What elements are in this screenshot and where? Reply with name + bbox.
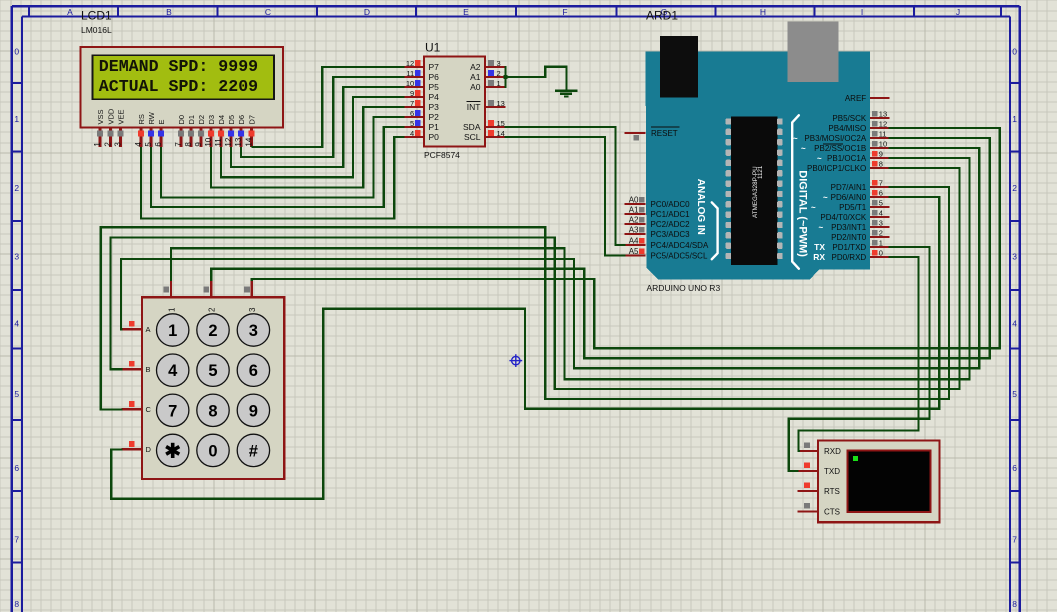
svg-text:RESET: RESET bbox=[651, 129, 678, 138]
svg-text:PD4/T0/XCK: PD4/T0/XCK bbox=[820, 213, 866, 222]
svg-text:D6: D6 bbox=[237, 115, 246, 125]
wire LCD D4 pin11 to U1 P4 bbox=[221, 97, 405, 177]
svg-text:LM016L: LM016L bbox=[81, 25, 112, 35]
svg-text:VEE: VEE bbox=[117, 109, 126, 124]
svg-text:B: B bbox=[146, 365, 151, 374]
keypad row pin state squares bbox=[129, 321, 135, 327]
svg-text:VDD: VDD bbox=[107, 108, 116, 124]
svg-text:3: 3 bbox=[248, 307, 257, 312]
U1 left pin state squares bbox=[415, 60, 421, 66]
wire keypad row C to ARD1 pin7 bbox=[101, 187, 949, 409]
virtual terminal pin stubs bbox=[798, 450, 819, 452]
ARD1 RESET state square bbox=[634, 135, 639, 140]
svg-text:J: J bbox=[956, 7, 960, 17]
svg-text:D1: D1 bbox=[187, 115, 196, 125]
svg-text:RXD: RXD bbox=[824, 447, 841, 456]
svg-text:7: 7 bbox=[174, 142, 183, 147]
U1 right pin state squares bbox=[488, 60, 494, 66]
svg-text:5: 5 bbox=[1012, 389, 1017, 399]
wire U1 A2 A1 A0 tie bbox=[504, 66, 506, 88]
svg-text:6: 6 bbox=[154, 142, 163, 147]
svg-text:14: 14 bbox=[244, 137, 253, 146]
wire U1 A1 to ground bbox=[505, 67, 567, 91]
svg-text:0: 0 bbox=[208, 442, 217, 460]
svg-text:U1: U1 bbox=[425, 41, 441, 55]
svg-text:P2: P2 bbox=[429, 112, 440, 122]
wire LCD D5 pin12 to U1 P5 bbox=[231, 87, 405, 167]
svg-text:5: 5 bbox=[14, 389, 19, 399]
svg-text:RTS: RTS bbox=[824, 487, 840, 496]
virtual terminal pin state squares bbox=[804, 443, 810, 449]
microcontroller ATMEGA328P DIP package bbox=[731, 116, 777, 265]
svg-text:4: 4 bbox=[14, 319, 19, 329]
svg-text:13: 13 bbox=[879, 110, 887, 119]
sheet ruler frame bbox=[12, 5, 1020, 7]
svg-text:I: I bbox=[861, 7, 863, 17]
svg-text:PB2/SS/OC1B: PB2/SS/OC1B bbox=[814, 144, 866, 153]
svg-text:3: 3 bbox=[113, 142, 122, 147]
ARD1 analog pin stubs bbox=[625, 203, 646, 205]
svg-text:ARDUINO UNO R3: ARDUINO UNO R3 bbox=[647, 283, 721, 293]
svg-text:PD6/AIN0: PD6/AIN0 bbox=[831, 193, 867, 202]
svg-text:10: 10 bbox=[879, 140, 887, 149]
svg-text:2: 2 bbox=[208, 307, 217, 312]
svg-text:P3: P3 bbox=[429, 102, 440, 112]
svg-text:A0: A0 bbox=[470, 82, 481, 92]
svg-text:12: 12 bbox=[406, 59, 414, 68]
svg-text:P6: P6 bbox=[429, 72, 440, 82]
svg-text:~: ~ bbox=[823, 193, 828, 202]
svg-text:PC3/ADC3: PC3/ADC3 bbox=[651, 230, 691, 239]
svg-text:TXD: TXD bbox=[824, 467, 840, 476]
svg-text:~: ~ bbox=[817, 154, 822, 163]
LCD1 pin state squares bbox=[97, 131, 103, 137]
wire ARD1 PD1/TXD to terminal TXD bbox=[789, 247, 930, 471]
svg-text:PB0/ICP1/CLKO: PB0/ICP1/CLKO bbox=[807, 164, 866, 173]
svg-text:2: 2 bbox=[208, 322, 217, 340]
svg-text:8: 8 bbox=[184, 142, 193, 147]
svg-text:10: 10 bbox=[204, 137, 213, 146]
svg-text:PB4/MISO: PB4/MISO bbox=[828, 124, 866, 133]
wire U1 SCL pin14 to ARD1 A5 bbox=[505, 137, 626, 256]
svg-text:1: 1 bbox=[167, 307, 176, 312]
svg-text:#: # bbox=[249, 442, 258, 460]
svg-text:9: 9 bbox=[410, 89, 414, 98]
svg-text:D2: D2 bbox=[197, 115, 206, 125]
svg-text:C: C bbox=[265, 7, 271, 17]
LCD1 pin stubs 1-14 bbox=[99, 128, 102, 148]
svg-text:5: 5 bbox=[208, 362, 217, 380]
svg-text:2: 2 bbox=[103, 142, 112, 147]
svg-text:5: 5 bbox=[879, 199, 883, 208]
svg-text:ARD1: ARD1 bbox=[646, 9, 678, 23]
svg-text:DIGITAL (~PWM): DIGITAL (~PWM) bbox=[797, 170, 809, 257]
svg-text:C: C bbox=[146, 405, 152, 414]
svg-text:E: E bbox=[463, 7, 469, 17]
svg-text:PB5/SCK: PB5/SCK bbox=[832, 114, 866, 123]
svg-text:D4: D4 bbox=[217, 115, 226, 125]
svg-text:3: 3 bbox=[1012, 252, 1017, 262]
svg-text:2: 2 bbox=[1012, 183, 1017, 193]
svg-text:7: 7 bbox=[879, 179, 883, 188]
svg-text:7: 7 bbox=[1012, 535, 1017, 545]
svg-text:PD7/AIN1: PD7/AIN1 bbox=[831, 183, 867, 192]
wire keypad col3 to ARD1 pin12 bbox=[252, 128, 1000, 348]
svg-text:7: 7 bbox=[410, 99, 414, 108]
wire ARD1 PD0/RXD to terminal RXD bbox=[799, 257, 919, 451]
IO expander U1 PCF8574 body bbox=[424, 57, 485, 147]
svg-text:SDA: SDA bbox=[463, 122, 481, 132]
svg-text:P5: P5 bbox=[429, 82, 440, 92]
svg-text:0: 0 bbox=[14, 47, 19, 57]
svg-text:3: 3 bbox=[497, 59, 501, 68]
svg-text:6: 6 bbox=[14, 463, 19, 473]
svg-text:PC0/ADC0: PC0/ADC0 bbox=[651, 200, 691, 209]
svg-text:11: 11 bbox=[214, 138, 223, 147]
svg-text:PD5/T1: PD5/T1 bbox=[839, 203, 867, 212]
svg-text:D0: D0 bbox=[177, 115, 186, 125]
svg-text:1: 1 bbox=[879, 239, 883, 248]
keypad body bbox=[142, 297, 284, 479]
wire LCD D6 pin13 to U1 P6 bbox=[241, 77, 405, 157]
svg-text:11: 11 bbox=[879, 130, 887, 139]
virtual terminal cursor bbox=[853, 456, 858, 461]
svg-text:D: D bbox=[146, 445, 152, 454]
virtual terminal body bbox=[818, 441, 940, 523]
svg-text:7: 7 bbox=[168, 402, 177, 420]
svg-text:14: 14 bbox=[497, 129, 505, 138]
svg-text:~: ~ bbox=[811, 203, 816, 212]
svg-text:ANALOG IN: ANALOG IN bbox=[695, 179, 706, 235]
svg-text:A5: A5 bbox=[629, 247, 639, 256]
svg-text:0: 0 bbox=[1012, 47, 1017, 57]
svg-text:LCD1: LCD1 bbox=[81, 9, 112, 23]
svg-text:11: 11 bbox=[406, 69, 414, 78]
svg-text:H: H bbox=[760, 7, 766, 17]
svg-text:A1: A1 bbox=[470, 72, 481, 82]
svg-text:VSS: VSS bbox=[96, 109, 105, 124]
svg-text:8: 8 bbox=[879, 160, 883, 169]
svg-text:PD1/TXD: PD1/TXD bbox=[832, 243, 866, 252]
svg-text:CTS: CTS bbox=[824, 507, 840, 516]
svg-text:3: 3 bbox=[14, 252, 19, 262]
svg-text:1: 1 bbox=[1012, 114, 1017, 124]
ARD1 digital pin state squares bbox=[872, 111, 877, 116]
svg-text:A0: A0 bbox=[629, 196, 639, 205]
svg-text:13: 13 bbox=[234, 137, 243, 146]
svg-text:5: 5 bbox=[410, 119, 414, 128]
svg-text:1: 1 bbox=[497, 79, 501, 88]
svg-text:D3: D3 bbox=[207, 115, 216, 125]
keypad column pin stubs bbox=[170, 280, 172, 297]
svg-text:9: 9 bbox=[879, 150, 883, 159]
ARD1 RESET pin stub bbox=[625, 132, 646, 134]
wire LCD E pin6 to U1 P2 bbox=[161, 117, 405, 197]
svg-text:6: 6 bbox=[879, 189, 883, 198]
svg-text:AREF: AREF bbox=[845, 94, 866, 103]
svg-text:1: 1 bbox=[14, 114, 19, 124]
svg-text:~: ~ bbox=[801, 144, 806, 153]
svg-text:4: 4 bbox=[1012, 319, 1017, 329]
keypad buttons 1-9 * 0 # bbox=[157, 314, 189, 346]
svg-text:PD0/RXD: PD0/RXD bbox=[832, 253, 867, 262]
wire keypad row A to ARD1 pin10 bbox=[121, 148, 979, 368]
Arduino ARD1 board outline bbox=[646, 52, 870, 280]
svg-text:8: 8 bbox=[208, 402, 217, 420]
svg-text:PD3/INT1: PD3/INT1 bbox=[831, 223, 867, 232]
keypad row pin stubs bbox=[122, 328, 142, 330]
svg-text:RX: RX bbox=[813, 252, 825, 262]
wire LCD RS pin4 to U1 P0 bbox=[141, 137, 405, 218]
svg-text:D: D bbox=[364, 7, 370, 17]
svg-text:3: 3 bbox=[879, 219, 883, 228]
ARD1 power jack bbox=[788, 22, 839, 83]
svg-text:8: 8 bbox=[1012, 599, 1017, 609]
svg-text:12: 12 bbox=[224, 137, 233, 146]
ARD1 pin stub AREF bbox=[870, 97, 890, 99]
svg-text:2: 2 bbox=[497, 69, 501, 78]
svg-text:F: F bbox=[562, 7, 567, 17]
svg-text:A: A bbox=[146, 325, 151, 334]
virtual terminal screen bbox=[848, 451, 931, 513]
svg-text:INT: INT bbox=[467, 102, 481, 112]
wire LCD RW pin5 to U1 P1 bbox=[151, 127, 405, 207]
svg-text:10: 10 bbox=[406, 79, 414, 88]
svg-text:SCL: SCL bbox=[464, 132, 481, 142]
ARD1 analog pin state squares bbox=[639, 197, 644, 202]
junction U1 A1 node bbox=[504, 75, 508, 79]
svg-text:RW: RW bbox=[147, 111, 156, 124]
svg-text:PC1/ADC1: PC1/ADC1 bbox=[651, 210, 691, 219]
svg-text:8: 8 bbox=[14, 599, 19, 609]
svg-text:P1: P1 bbox=[429, 122, 440, 132]
wire keypad col2 to ARD1 pin11 bbox=[211, 138, 989, 358]
svg-text:A3: A3 bbox=[629, 226, 639, 235]
svg-text:12: 12 bbox=[879, 120, 887, 129]
svg-text:A2: A2 bbox=[470, 62, 481, 72]
svg-text:PCF8574: PCF8574 bbox=[424, 150, 460, 160]
svg-text:B: B bbox=[166, 7, 172, 17]
svg-text:D5: D5 bbox=[227, 115, 236, 125]
svg-text:P0: P0 bbox=[429, 132, 440, 142]
svg-text:4: 4 bbox=[168, 362, 178, 380]
origin marker bbox=[509, 354, 522, 367]
svg-text:DEMAND SPD: 9999: DEMAND SPD: 9999 bbox=[99, 57, 258, 76]
svg-text:PC4/ADC4/SDA: PC4/ADC4/SDA bbox=[651, 241, 709, 250]
LCD LCD1 body bbox=[81, 47, 284, 128]
svg-text:P4: P4 bbox=[429, 92, 440, 102]
U1 left pin stubs bbox=[404, 66, 425, 68]
wire LCD D3 pin10 to U1 P3 bbox=[211, 107, 405, 187]
svg-text:PC2/ADC2: PC2/ADC2 bbox=[651, 220, 691, 229]
ARD1 digital pin stubs 13-0 bbox=[870, 117, 890, 119]
svg-text:A1: A1 bbox=[629, 206, 639, 215]
svg-text:RS: RS bbox=[137, 114, 146, 124]
ARD1 USB connector bbox=[660, 36, 698, 98]
wire keypad col1 to ARD1 pin9 bbox=[171, 158, 970, 379]
svg-text:E: E bbox=[157, 119, 166, 124]
ARD1 analog brace bbox=[712, 202, 718, 259]
svg-text:D7: D7 bbox=[248, 115, 257, 125]
wire keypad row D to ARD1 pin6 bbox=[111, 197, 939, 499]
ground bbox=[555, 90, 577, 92]
svg-text:0: 0 bbox=[879, 249, 883, 258]
svg-text:2: 2 bbox=[879, 229, 883, 238]
svg-text:1: 1 bbox=[168, 322, 177, 340]
svg-text:6: 6 bbox=[410, 109, 414, 118]
svg-text:15: 15 bbox=[497, 119, 505, 128]
wire keypad row B to ARD1 pin8 bbox=[111, 168, 960, 389]
svg-text:PB3/MOSI/OC2A: PB3/MOSI/OC2A bbox=[804, 134, 866, 143]
svg-text:P7: P7 bbox=[429, 62, 440, 72]
svg-text:ACTUAL SPD: 2209: ACTUAL SPD: 2209 bbox=[99, 77, 258, 96]
svg-text:3: 3 bbox=[249, 322, 258, 340]
svg-text:PD2/INT0: PD2/INT0 bbox=[831, 233, 867, 242]
svg-text:TX: TX bbox=[814, 242, 825, 252]
svg-text:6: 6 bbox=[249, 362, 258, 380]
svg-text:9: 9 bbox=[194, 142, 203, 147]
svg-text:~: ~ bbox=[819, 223, 824, 232]
svg-text:7: 7 bbox=[14, 535, 19, 545]
wire U1 SDA pin15 to ARD1 A4 bbox=[505, 127, 626, 245]
wire LCD D7 pin14 to U1 P7 bbox=[252, 67, 405, 147]
svg-text:A4: A4 bbox=[629, 237, 639, 246]
svg-text:13: 13 bbox=[497, 99, 505, 108]
svg-text:9: 9 bbox=[249, 402, 258, 420]
U1 right pin stubs bbox=[485, 66, 506, 68]
svg-text:2: 2 bbox=[14, 183, 19, 193]
svg-text:4: 4 bbox=[410, 129, 414, 138]
svg-text:1: 1 bbox=[93, 142, 102, 147]
svg-text:1121: 1121 bbox=[757, 165, 764, 179]
svg-text:A: A bbox=[67, 7, 73, 17]
svg-text:4: 4 bbox=[879, 209, 883, 218]
svg-text:A2: A2 bbox=[629, 216, 639, 225]
svg-text:PB1/OC1A: PB1/OC1A bbox=[827, 154, 867, 163]
ARD1 digital brace bbox=[792, 115, 799, 268]
LCD1 screen bbox=[93, 55, 275, 99]
svg-text:PC5/ADC5/SCL: PC5/ADC5/SCL bbox=[651, 251, 708, 260]
svg-text:~: ~ bbox=[793, 134, 798, 143]
keypad column pin state squares bbox=[163, 287, 169, 293]
svg-text:4: 4 bbox=[134, 142, 143, 147]
svg-text:5: 5 bbox=[144, 142, 153, 147]
svg-text:6: 6 bbox=[1012, 463, 1017, 473]
